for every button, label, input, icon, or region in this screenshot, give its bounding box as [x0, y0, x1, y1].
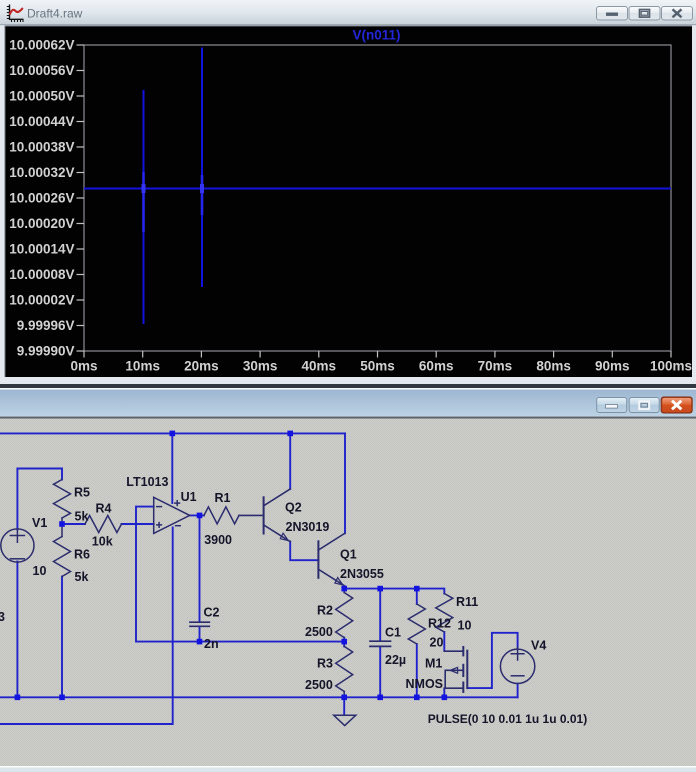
y axis ticks and labels: [9, 38, 84, 359]
resistor R12: [408, 604, 425, 644]
svg-text:70ms: 70ms: [478, 359, 513, 374]
svg-text:10.00032V: 10.00032V: [9, 165, 74, 180]
svg-text:R2: R2: [317, 604, 333, 618]
svg-text:R3: R3: [317, 657, 333, 671]
trace: flat line: [84, 188, 671, 190]
svg-text:R6: R6: [74, 548, 90, 562]
wire: ground stub: [343, 697, 345, 714]
wire: Q2 collector to rail: [289, 433, 291, 489]
resistor R5: [54, 480, 71, 519]
voltage source V1: [1, 529, 34, 562]
capacitor C2: [190, 622, 209, 626]
svg-text:2n: 2n: [204, 637, 219, 651]
plot border: [84, 45, 671, 351]
svg-text:M1: M1: [425, 657, 442, 671]
svg-text:10.00056V: 10.00056V: [9, 63, 74, 78]
button: close (plot window): [662, 7, 693, 21]
button: close (schematic window): [661, 397, 693, 414]
wire: op-amp output: [190, 514, 204, 516]
svg-text:10: 10: [33, 564, 47, 578]
node junction M1 source: [442, 695, 448, 701]
svg-text:30ms: 30ms: [243, 359, 278, 374]
svg-text:R1: R1: [215, 491, 231, 505]
resistor R3: [336, 646, 353, 691]
resistor R2: [343, 589, 345, 593]
button: restore (schematic window): [629, 398, 659, 413]
node junction R5 R6 R4: [59, 521, 65, 527]
voltage source V4: [500, 647, 534, 683]
svg-text:22µ: 22µ: [385, 653, 406, 667]
wire: R4 right to op-amp plus input: [122, 523, 154, 525]
svg-text:0ms: 0ms: [70, 359, 97, 374]
svg-text:C2: C2: [204, 606, 220, 620]
svg-text:Q1: Q1: [340, 548, 357, 562]
wire: C1 bottom lead: [379, 647, 381, 698]
node junction Q1 emitter: [341, 586, 347, 592]
capacitor C1: [370, 641, 391, 646]
wire: R2 bottom lead: [343, 638, 345, 647]
svg-text:2500: 2500: [305, 625, 333, 639]
wire: R11 bottom to M1 drain: [443, 632, 445, 651]
wire: op-amp V- supply to left edge: [0, 528, 173, 725]
wire: R12 bottom lead: [416, 644, 418, 697]
resistor R6: [61, 524, 63, 537]
svg-text:10.00020V: 10.00020V: [9, 216, 74, 231]
svg-text:60ms: 60ms: [419, 359, 454, 374]
node junction rail / op-amp V+: [170, 431, 176, 437]
svg-text:10.00008V: 10.00008V: [9, 267, 74, 282]
svg-text:3900: 3900: [204, 533, 232, 547]
titlebar: Draft4.raw: [0, 0, 696, 25]
plot pane: [5, 26, 692, 377]
svg-text:10.00038V: 10.00038V: [9, 140, 74, 155]
node junction C1 bottom: [377, 695, 383, 701]
svg-text:20: 20: [430, 636, 444, 650]
svg-text:50ms: 50ms: [360, 359, 395, 374]
svg-text:9.99996V: 9.99996V: [17, 318, 75, 333]
svg-text:C1: C1: [385, 626, 401, 640]
svg-text:V(n011): V(n011): [352, 28, 400, 43]
wire: C2 bottom lead: [199, 627, 201, 642]
transistor Q2: [264, 489, 291, 542]
svg-text:R4: R4: [96, 502, 112, 516]
node junction R6 bottom: [59, 695, 65, 701]
svg-text:10.00002V: 10.00002V: [9, 293, 74, 308]
wire: M1 source to ground rail: [443, 688, 445, 697]
op-amp U1: [154, 497, 190, 533]
svg-text:3: 3: [0, 610, 5, 624]
wire: feedback from inverting input: [136, 507, 344, 642]
wire: R1 to Q2 base: [239, 514, 264, 516]
svg-text:LT1013: LT1013: [126, 475, 168, 489]
svg-text:2500: 2500: [305, 678, 333, 692]
svg-text:R5: R5: [74, 486, 90, 500]
svg-text:10: 10: [458, 619, 472, 633]
frame: window separator: [0, 384, 696, 388]
x axis ticks and labels: [70, 351, 692, 374]
svg-text:100ms: 100ms: [650, 359, 692, 374]
svg-text:V1: V1: [32, 516, 47, 530]
mosfet M1: [444, 647, 467, 692]
node junction rail / Q2 collector: [287, 431, 293, 437]
button: minimize (plot window): [597, 7, 628, 21]
node junction C1 top: [377, 586, 383, 592]
wire: V4 minus to ground rail: [517, 684, 519, 698]
wire: V1 minus to ground rail: [16, 562, 18, 698]
wire: ground rail: [0, 696, 518, 698]
node junction ground node: [341, 695, 347, 701]
frame: bottom border: [0, 766, 696, 768]
wire: node to R4 left: [62, 523, 85, 525]
svg-text:R11: R11: [456, 595, 478, 609]
svg-text:2N3055: 2N3055: [340, 567, 384, 581]
wire: C1 top lead: [379, 589, 381, 641]
wire: positive supply rail: [0, 432, 345, 434]
node junction R12 bottom: [414, 695, 420, 701]
svg-text:10k: 10k: [92, 534, 113, 548]
schematic background: [0, 419, 696, 766]
svg-text:Draft4.raw: Draft4.raw: [27, 7, 83, 21]
node junction V1 minus: [15, 695, 21, 701]
resistor R11: [436, 594, 453, 633]
svg-text:10.00062V: 10.00062V: [9, 38, 74, 53]
wire: R6 bottom to ground rail: [61, 577, 63, 698]
svg-text:2N3019: 2N3019: [286, 520, 330, 534]
svg-text:5k: 5k: [75, 510, 89, 524]
wire: Q2 emitter to Q1 base: [290, 542, 318, 561]
resistor R4: [85, 516, 122, 533]
svg-text:9.99990V: 9.99990V: [17, 344, 75, 359]
svg-text:PULSE(0 10 0.01 1u 1u 0.01): PULSE(0 10 0.01 1u 1u 0.01): [428, 712, 587, 726]
svg-text:10ms: 10ms: [125, 359, 160, 374]
node junction R12 top: [414, 586, 420, 592]
wire: op-amp V+ supply: [171, 433, 173, 503]
resistor R1: [204, 507, 239, 524]
ground: [334, 715, 356, 725]
titlebar: schematic window: [0, 390, 696, 417]
node junction R2 R3 feedback: [341, 639, 347, 645]
trace: spike at 10ms: [143, 90, 145, 324]
svg-text:Q2: Q2: [285, 501, 302, 515]
wire: R12 top lead: [416, 589, 418, 604]
svg-text:10.00026V: 10.00026V: [9, 191, 74, 206]
wire: C2 top lead: [199, 515, 201, 621]
svg-text:V4: V4: [531, 639, 546, 653]
svg-text:10.00044V: 10.00044V: [9, 114, 74, 129]
svg-text:5k: 5k: [75, 570, 89, 584]
svg-text:90ms: 90ms: [595, 359, 630, 374]
window: waveform viewer frame: [0, 0, 696, 384]
button: restore (plot window): [629, 7, 660, 21]
node junction C2 bottom: [197, 639, 203, 645]
svg-text:10.00014V: 10.00014V: [9, 242, 74, 257]
trace: spike at 20ms: [201, 48, 203, 288]
transistor Q1: [318, 533, 344, 586]
svg-text:20ms: 20ms: [184, 359, 219, 374]
wire: V1 plus to R5 top: [17, 469, 62, 530]
button: minimize (schematic window): [597, 398, 627, 413]
svg-text:R12: R12: [428, 617, 451, 631]
svg-text:40ms: 40ms: [302, 359, 337, 374]
svg-text:10.00050V: 10.00050V: [9, 89, 74, 104]
wire: rail down to Q1 collector: [344, 433, 346, 533]
icon: waveform: [7, 5, 24, 23]
svg-text:80ms: 80ms: [536, 359, 571, 374]
wire: Q1 emitter rail: [344, 587, 444, 594]
svg-text:NMOS: NMOS: [406, 677, 444, 691]
node junction op-amp output: [197, 513, 203, 519]
wire: V4 plus to M1 gate: [467, 633, 517, 688]
svg-text:U1: U1: [181, 490, 197, 504]
